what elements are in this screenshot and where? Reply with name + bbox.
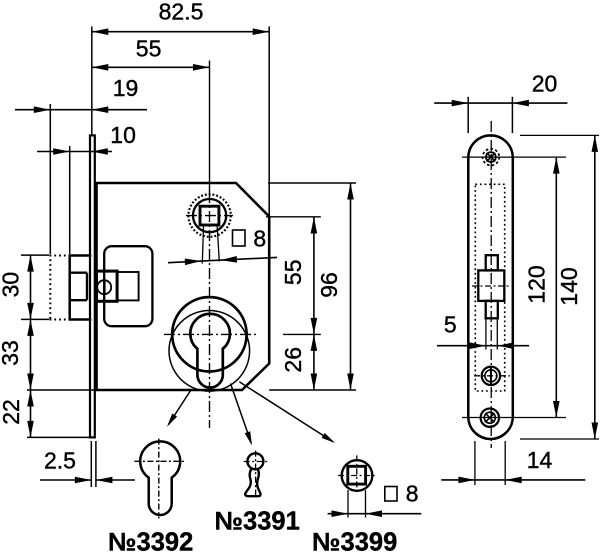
follower circle [193,199,226,232]
keyhole 3391 [247,453,263,469]
dim 8 line [168,257,277,262]
bolt hub housing (rounded) [104,246,152,326]
svg-text:№3392: №3392 [108,528,193,552]
square 8 symbol (follower) [233,230,246,246]
dim 14 [441,479,585,481]
ext line case right [268,27,270,217]
bolt tail inner block [117,272,139,300]
spindle profile 3399 [342,460,373,491]
europrofile cylinder silhouette [190,314,230,388]
dim line 55-26 vertical [313,217,315,390]
latch bolt front [486,255,498,270]
dim 96 [350,183,352,390]
dim 120 [555,157,557,417]
bottom screw hole [481,409,499,427]
dim 2.5 faceplate thickness [40,479,91,481]
dim 20 [434,102,567,104]
dim 5 latch [437,345,529,347]
leader to 3391 [231,384,252,444]
bolt tail block (bold) [97,271,118,301]
svg-text:№3391: №3391 [215,508,300,536]
ext line bolt face [69,146,71,254]
ext line faceplate bottom [27,436,89,438]
svg-text:2.5: 2.5 [44,448,76,474]
follower centerline horizontal [186,215,233,217]
screw axis ext lines [462,156,566,158]
svg-text:82.5: 82.5 [159,0,204,24]
deadbolt (extended) [68,256,71,320]
cylinder centerline horizontal [164,333,256,335]
dim 55 vertical arrows [311,217,318,234]
faceplate (edge view) [90,135,95,437]
dim 82.5 [92,31,269,33]
dim 33 arrows [27,319,34,336]
dim 30 arrows [27,255,34,272]
dim 140 [594,135,596,439]
3391 centerlines [244,461,268,463]
dim 22 arrows [27,390,34,407]
svg-text:8: 8 [406,481,419,507]
latch centerline [472,285,510,287]
3392 centerlines [134,460,184,462]
square 8 symbol (3399) [385,487,397,502]
faceplate front view [468,135,513,439]
svg-text:8: 8 [253,225,266,251]
follower axis extension to 55 dim [266,216,321,218]
case footprint (dotted) [475,184,504,391]
ext lines faceplate thickness [90,441,92,487]
svg-text:30: 30 [0,272,24,298]
cylinder axis extension to dims [283,333,321,335]
middle screw hole [482,367,500,385]
svg-text:26: 26 [280,347,306,373]
svg-text:19: 19 [113,75,139,101]
top screw hole [483,149,500,166]
lock case outline [97,183,270,390]
ext line bolt thrown face [49,104,51,254]
ext line case top [268,182,356,184]
dim 8 under 3399 [328,513,422,515]
svg-text:14: 14 [527,447,553,473]
follower dotted circle [188,194,230,236]
deadbolt thrown position (dotted) [49,255,51,321]
svg-text:10: 10 [110,122,136,148]
cylinder escutcheon circle (thin) [169,311,250,392]
dim 8 slanted extension lines [202,227,203,264]
svg-text:55: 55 [280,260,306,286]
dim 26 arrows [311,334,318,351]
svg-text:33: 33 [0,340,23,366]
svg-text:№3399: №3399 [312,529,397,552]
cylinder hole circle (bold) [172,297,246,371]
3399 centerlines [338,475,376,477]
svg-text:5: 5 [444,312,457,338]
follower square hole 8mm [200,206,219,225]
cylinder profile 3392 [140,441,180,515]
leader to 3392 [169,391,191,425]
ext line left reference [91,27,93,136]
svg-text:140: 140 [556,267,582,305]
svg-text:20: 20 [532,70,558,96]
dim 55 top [92,66,210,68]
case bottom extension line [27,389,97,391]
dim line 30-33-22 [30,255,32,437]
dim 19 [15,109,147,111]
svg-text:120: 120 [524,265,550,303]
svg-text:55: 55 [136,36,162,62]
ext lines bolt top/bottom [21,254,49,256]
dim 10 [37,151,112,153]
svg-text:96: 96 [316,272,342,298]
screw head [97,280,111,294]
follower centerline vertical [209,61,211,193]
svg-text:22: 22 [0,399,24,425]
faceplate centerline [490,121,492,448]
deadbolt middle band [70,272,87,274]
leader to 3399 [239,382,333,442]
